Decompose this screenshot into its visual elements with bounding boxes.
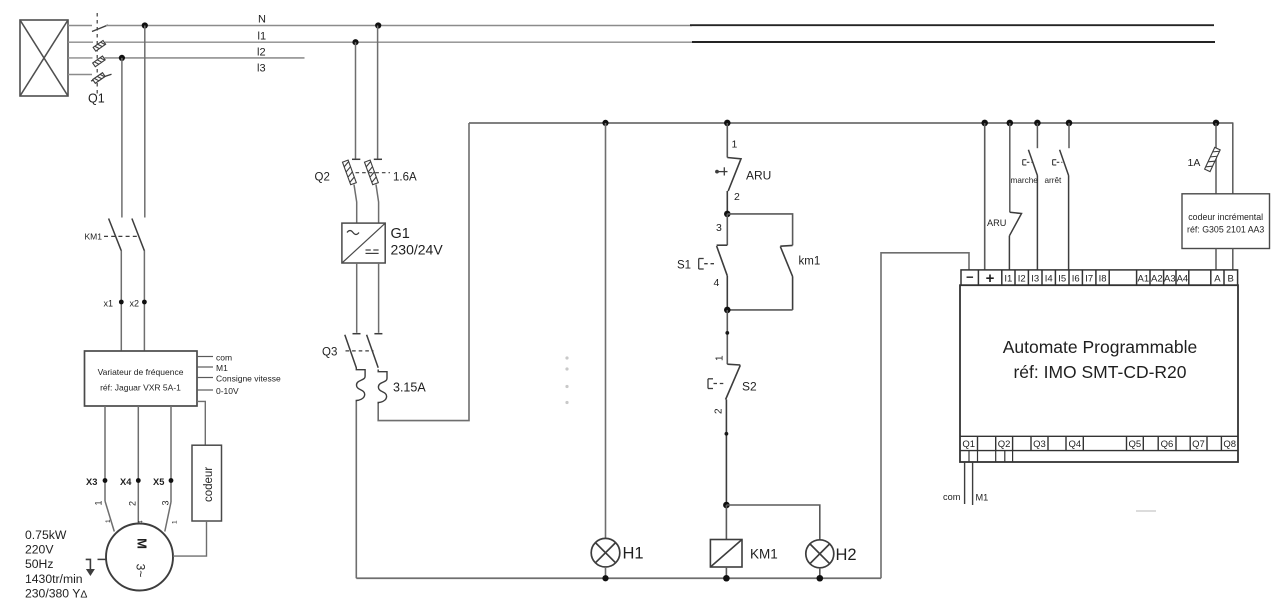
wire variateur to codeur bbox=[197, 401, 205, 445]
svg-text:S2: S2 bbox=[742, 380, 757, 394]
svg-text:2: 2 bbox=[734, 191, 740, 203]
svg-text:−: − bbox=[966, 270, 974, 285]
button marche (NO to input I3) bbox=[1028, 150, 1037, 270]
wire H1 drop bbox=[605, 123, 607, 538]
S1 pushbutton actuator bbox=[699, 259, 716, 270]
wire V phase down bbox=[137, 406, 139, 524]
terminal labels row bbox=[966, 270, 1234, 288]
svg-text:B: B bbox=[1228, 274, 1234, 285]
svg-text:Consigne vitesse: Consigne vitesse bbox=[216, 374, 281, 384]
wire drop from l2 to KM1 pole 1 bbox=[121, 58, 123, 218]
node rail arret bbox=[1066, 120, 1073, 127]
wire l1 right (dark) bbox=[692, 41, 1215, 43]
svg-text:1: 1 bbox=[715, 355, 726, 361]
wire codeur to motor bbox=[173, 521, 207, 556]
node coil branch bbox=[723, 502, 730, 509]
wire rail to marche bbox=[1036, 123, 1038, 148]
svg-text:l1: l1 bbox=[258, 31, 267, 43]
svg-text:230/24V: 230/24V bbox=[391, 242, 444, 258]
svg-text:3~: 3~ bbox=[134, 564, 148, 578]
wire Q1 com bbox=[964, 462, 966, 504]
wire rejoin to S2 bbox=[726, 310, 728, 364]
wire rail to ARU bbox=[726, 123, 728, 158]
fuse Q1 pole l2 bbox=[93, 56, 105, 67]
node on l2 at x=122 bbox=[119, 55, 125, 61]
wire W into motor bbox=[165, 502, 171, 532]
svg-text:G1: G1 bbox=[391, 226, 410, 242]
svg-text:Q2: Q2 bbox=[315, 172, 330, 184]
svg-text:3: 3 bbox=[161, 500, 171, 505]
svg-text:réf: Jaguar VXR 5A-1: réf: Jaguar VXR 5A-1 bbox=[100, 383, 181, 393]
wire codeur to terminal B bbox=[1232, 249, 1234, 270]
wire km1 rejoin bbox=[727, 309, 792, 311]
node branch split bbox=[724, 211, 731, 218]
wire N left stub bbox=[68, 25, 92, 27]
svg-text:0.75kW: 0.75kW bbox=[25, 528, 67, 542]
node H2 bottom bbox=[817, 575, 824, 582]
node X3 bbox=[103, 478, 108, 483]
wire drop from N to KM1 pole 2 bbox=[144, 26, 146, 218]
wire branch to H2 bbox=[726, 505, 819, 540]
node rail plus bbox=[981, 120, 988, 127]
fuse element pole1 (3.15A) bbox=[356, 368, 365, 402]
contactor KM1 pole 1 blade bbox=[109, 219, 122, 251]
wire U phase down bbox=[104, 406, 106, 501]
svg-text:Q3: Q3 bbox=[322, 347, 337, 359]
PLC output row lines bbox=[960, 436, 1238, 450]
node rejoin bbox=[724, 307, 731, 314]
wire G1 out 1 bbox=[356, 263, 358, 333]
Q3 pole2 blade bbox=[367, 335, 379, 368]
svg-text:X3: X3 bbox=[86, 477, 97, 487]
wire rail to codeur A bbox=[1215, 123, 1217, 194]
wire motor to ground bbox=[98, 558, 107, 560]
svg-text:réf: G305 2101 AA3: réf: G305 2101 AA3 bbox=[1187, 225, 1264, 235]
node X4 bbox=[136, 478, 141, 483]
fuse Q2 pole 1 bbox=[342, 160, 356, 185]
PLC body bbox=[960, 285, 1238, 462]
svg-text:3.15A: 3.15A bbox=[393, 381, 426, 395]
codeur box bbox=[192, 445, 222, 521]
svg-text:ARU: ARU bbox=[987, 218, 1006, 228]
Q3 pole2 terminal bar bbox=[374, 333, 382, 335]
svg-text:X5: X5 bbox=[153, 477, 164, 487]
wire l1 left bbox=[68, 41, 93, 43]
pin label 2 rotated (S2 bottom) bbox=[714, 408, 725, 414]
wire Q1 M1 bbox=[972, 462, 974, 505]
svg-text:Q6: Q6 bbox=[1161, 439, 1174, 450]
svg-text:Variateur de fréquence: Variateur de fréquence bbox=[98, 367, 184, 377]
svg-text:A1: A1 bbox=[1137, 274, 1149, 285]
wire N mid bbox=[106, 25, 692, 27]
svg-text:ARU: ARU bbox=[746, 169, 771, 183]
coil KM1 bbox=[710, 540, 742, 568]
svg-text:réf: IMO SMT-CD-R20: réf: IMO SMT-CD-R20 bbox=[1013, 362, 1186, 382]
svg-text:KM1: KM1 bbox=[750, 547, 778, 562]
Q3 pole1 blade bbox=[345, 335, 357, 368]
node rail marche bbox=[1034, 120, 1041, 127]
switch S2 (NC pushbutton) bbox=[726, 364, 741, 505]
contact ARU2 (NC to input I1) bbox=[1009, 212, 1021, 270]
svg-text:M1: M1 bbox=[216, 363, 228, 373]
wire KM1 pole2 to x2 bbox=[143, 251, 145, 352]
svg-text:I8: I8 bbox=[1099, 274, 1107, 285]
lamp H1 bbox=[591, 538, 620, 567]
wire G1 out 2 bbox=[378, 263, 380, 333]
wire KM1 pole1 to x1 bbox=[120, 251, 122, 352]
node x2 bbox=[142, 300, 147, 305]
svg-text:Q5: Q5 bbox=[1129, 439, 1142, 450]
fuse 1A bbox=[1205, 147, 1221, 171]
Q2 pole2 terminal bar bbox=[374, 158, 382, 160]
wire rail to ARU2 bbox=[1009, 123, 1011, 212]
svg-text:I7: I7 bbox=[1085, 274, 1093, 285]
svg-text:0-10V: 0-10V bbox=[216, 386, 239, 396]
bottom rail bbox=[356, 577, 881, 579]
KM1 link dashed bbox=[104, 235, 139, 237]
node on l1 at x=355 bbox=[352, 39, 358, 45]
Q1 sub-terminal dividers bbox=[969, 451, 1013, 462]
terminal mark w bbox=[172, 520, 179, 524]
motor label M rotated bbox=[135, 538, 150, 549]
svg-text:1: 1 bbox=[732, 139, 738, 151]
output labels Q1..Q8 bbox=[962, 439, 1236, 450]
wire H1 to bottom rail bbox=[605, 567, 607, 578]
arret actuator bbox=[1053, 160, 1063, 165]
terminal mark v bbox=[138, 520, 145, 524]
contactor KM1 pole 2 blade bbox=[132, 219, 145, 251]
G1 DC symbol bbox=[366, 250, 379, 253]
svg-text:KM1: KM1 bbox=[85, 232, 103, 242]
motor label 3~ rotated bbox=[134, 564, 148, 578]
terminal mark u bbox=[105, 519, 112, 523]
pin label 3 bbox=[161, 500, 171, 505]
svg-text:H2: H2 bbox=[836, 546, 857, 564]
control rail top bbox=[469, 122, 1233, 124]
wire W phase down bbox=[170, 406, 172, 502]
svg-text:Q7: Q7 bbox=[1192, 439, 1205, 450]
svg-text:I6: I6 bbox=[1072, 274, 1080, 285]
svg-text:Q8: Q8 bbox=[1223, 439, 1236, 450]
wire fuse1 to bottom rail bbox=[355, 402, 357, 579]
node on N at x=145 bbox=[142, 22, 148, 28]
Q1 mechanical link (dashed) bbox=[96, 13, 98, 94]
svg-text:A: A bbox=[1214, 274, 1221, 285]
svg-text:M1: M1 bbox=[976, 493, 989, 503]
svg-text:I2: I2 bbox=[1018, 274, 1026, 285]
wire fuse2 to control rail riser bbox=[378, 123, 469, 421]
svg-text:1: 1 bbox=[105, 519, 112, 523]
svg-text:l2: l2 bbox=[257, 47, 266, 59]
node X5 bbox=[169, 478, 174, 483]
marche actuator bbox=[1023, 160, 1033, 165]
svg-text:1: 1 bbox=[94, 500, 104, 505]
Q2 pole1 terminal bar bbox=[352, 158, 360, 160]
node coil bottom bbox=[723, 575, 730, 582]
Q3 link dashed bbox=[346, 350, 374, 352]
node H1 bottom bbox=[602, 575, 608, 581]
svg-text:x2: x2 bbox=[130, 299, 140, 309]
wire split to S1 bbox=[726, 214, 728, 245]
wire l3 left bbox=[68, 74, 92, 76]
fuse Q1 pole l3 bbox=[93, 73, 105, 84]
svg-text:A2: A2 bbox=[1151, 274, 1163, 285]
svg-text:codeur: codeur bbox=[203, 467, 215, 502]
svg-text:Q4: Q4 bbox=[1069, 439, 1082, 450]
svg-text:4: 4 bbox=[714, 277, 720, 289]
power supply G1 box bbox=[342, 223, 385, 263]
scan artifact smudge bbox=[1136, 510, 1156, 512]
node x1 bbox=[119, 300, 124, 305]
svg-text:3: 3 bbox=[716, 222, 722, 234]
transformer T1 (source box) bbox=[20, 20, 68, 96]
svg-text:com: com bbox=[943, 492, 961, 502]
stub consigne bbox=[197, 377, 213, 379]
svg-text:I4: I4 bbox=[1045, 274, 1053, 285]
svg-text:2: 2 bbox=[714, 408, 725, 414]
button arret (NO to input I5) bbox=[1060, 150, 1069, 270]
wire l2 mid bbox=[105, 57, 305, 59]
PLC terminal strip top bbox=[961, 270, 1238, 285]
Q1 blade pole l3 bbox=[91, 74, 112, 81]
svg-text:1430tr/min: 1430tr/min bbox=[25, 572, 83, 586]
svg-text:220V: 220V bbox=[25, 543, 54, 557]
ground symbol bbox=[86, 559, 95, 576]
node rail ARU2 bbox=[1007, 120, 1014, 127]
svg-text:codeur incrémental: codeur incrémental bbox=[1188, 212, 1263, 222]
svg-text:Automate Programmable: Automate Programmable bbox=[1003, 337, 1198, 357]
node on N at x=378 bbox=[375, 22, 381, 28]
svg-text:Q1: Q1 bbox=[962, 439, 975, 450]
wire U into motor bbox=[105, 501, 114, 532]
G1 diagonal bbox=[343, 224, 385, 263]
fuse Q2 pole 2 bbox=[364, 160, 378, 185]
svg-text:arrêt: arrêt bbox=[1045, 176, 1063, 185]
wire codeur to terminal A bbox=[1215, 249, 1217, 270]
svg-text:I1: I1 bbox=[1004, 274, 1012, 285]
wire N to Q2 pole 2 bbox=[377, 26, 379, 159]
wire Q2 pole2 exit bbox=[376, 185, 379, 224]
stub M1 bbox=[197, 366, 213, 368]
svg-text:M: M bbox=[135, 538, 150, 549]
svg-text:1A: 1A bbox=[1188, 157, 1201, 169]
svg-text:I3: I3 bbox=[1031, 274, 1039, 285]
svg-text:com: com bbox=[216, 353, 232, 363]
svg-text:1.6A: 1.6A bbox=[393, 172, 417, 184]
wire rail corner to codeur B bbox=[1232, 123, 1234, 194]
pin label 2 bbox=[128, 501, 138, 506]
node rail H1 bbox=[602, 120, 608, 126]
wire Q2 pole1 exit bbox=[354, 185, 357, 224]
svg-text:50Hz: 50Hz bbox=[25, 557, 53, 571]
wire l1 to Q2 pole 1 bbox=[355, 42, 357, 158]
wire N right (dark) bbox=[690, 24, 1214, 26]
svg-text:1: 1 bbox=[172, 520, 179, 524]
node rail ARU bbox=[724, 120, 731, 127]
svg-text:Q1: Q1 bbox=[88, 92, 105, 106]
svg-text:I5: I5 bbox=[1058, 274, 1066, 285]
wire H2 to bottom rail bbox=[819, 568, 821, 578]
codeur incremental box bbox=[1182, 194, 1270, 249]
terminal dot S2 bottom bbox=[725, 432, 729, 436]
ARU mushroom actuator bbox=[715, 167, 727, 175]
svg-text:S1: S1 bbox=[677, 260, 691, 272]
wire bottom rail to minus terminal bbox=[881, 253, 969, 578]
svg-text:Q2: Q2 bbox=[998, 439, 1011, 450]
Q3 pole1 terminal bar bbox=[353, 333, 361, 335]
motor ratings text block bbox=[25, 528, 87, 600]
pin label 1 rotated (S2 top) bbox=[715, 355, 726, 361]
svg-text:km1: km1 bbox=[799, 256, 821, 268]
contact km1 (NO auxiliary) bbox=[780, 245, 792, 310]
label codeur rotated bbox=[203, 467, 215, 502]
svg-text:A4: A4 bbox=[1177, 274, 1189, 285]
G1 AC tilde bbox=[347, 231, 359, 235]
svg-text:marche: marche bbox=[1011, 176, 1039, 185]
svg-text:A3: A3 bbox=[1164, 274, 1176, 285]
stub 0-10V bbox=[197, 389, 213, 391]
pin label 1 bbox=[94, 500, 104, 505]
svg-text:230/380 YΔ: 230/380 YΔ bbox=[25, 586, 87, 600]
wire rail to arret bbox=[1068, 123, 1070, 148]
scan artifact dots bbox=[565, 356, 568, 404]
svg-text:2: 2 bbox=[128, 501, 138, 506]
svg-text:X4: X4 bbox=[120, 477, 132, 487]
fuse element pole2 (3.15A) bbox=[378, 370, 387, 405]
lamp H2 bbox=[806, 540, 834, 568]
Q2 link dashed bbox=[356, 172, 391, 174]
svg-text:H1: H1 bbox=[623, 545, 644, 563]
variateur U1 box bbox=[85, 351, 198, 406]
wire rail to plus terminal bbox=[984, 123, 986, 270]
terminal dot S2 top bbox=[725, 331, 729, 335]
motor M1 circle bbox=[106, 524, 173, 591]
svg-text:x1: x1 bbox=[104, 299, 114, 309]
svg-text:Q3: Q3 bbox=[1033, 439, 1046, 450]
fuse Q1 pole l1 bbox=[93, 40, 105, 51]
Q1 disconnector blade pole N bbox=[92, 25, 108, 32]
stub com bbox=[197, 356, 213, 358]
wire l1 mid bbox=[105, 41, 694, 43]
svg-text:N: N bbox=[258, 14, 266, 26]
S2 pushbutton actuator bbox=[708, 379, 725, 389]
svg-text:l3: l3 bbox=[257, 63, 266, 75]
wire l2 left bbox=[68, 57, 93, 59]
wire to KM1 coil bbox=[725, 505, 727, 540]
node rail 1A fuse bbox=[1213, 120, 1220, 127]
switch S1 (NO pushbutton) bbox=[717, 245, 728, 310]
switch ARU (NC emergency stop) bbox=[727, 158, 741, 214]
wire coil to bottom rail bbox=[725, 567, 727, 578]
wire branch to km1 bbox=[727, 214, 792, 246]
